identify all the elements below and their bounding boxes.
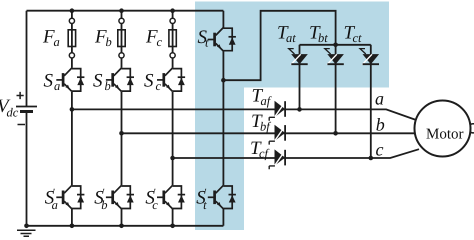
svg-text:af: af: [261, 94, 272, 108]
svg-text:b: b: [101, 198, 107, 212]
svg-text:ct: ct: [353, 31, 363, 45]
svg-text:c: c: [376, 139, 384, 159]
svg-text:t: t: [205, 36, 209, 50]
svg-text:cf: cf: [259, 147, 270, 161]
svg-text:a: a: [54, 79, 60, 93]
svg-text:dc: dc: [7, 106, 19, 120]
svg-text:Motor: Motor: [426, 127, 464, 143]
svg-text:S: S: [44, 71, 54, 92]
svg-text:S: S: [144, 71, 154, 92]
svg-text:bf: bf: [260, 120, 271, 134]
svg-text:a: a: [375, 89, 384, 109]
svg-text:t: t: [203, 198, 207, 212]
svg-text:at: at: [286, 31, 296, 45]
svg-text:b: b: [105, 79, 111, 93]
svg-text:c: c: [157, 35, 163, 49]
svg-text:a: a: [52, 198, 58, 212]
svg-text:b: b: [106, 35, 112, 49]
svg-text:c: c: [152, 198, 158, 212]
svg-text:b: b: [376, 115, 385, 135]
svg-text:a: a: [54, 35, 60, 49]
svg-text:c: c: [156, 79, 162, 93]
svg-text:bt: bt: [318, 31, 328, 45]
svg-text:S: S: [93, 71, 103, 92]
